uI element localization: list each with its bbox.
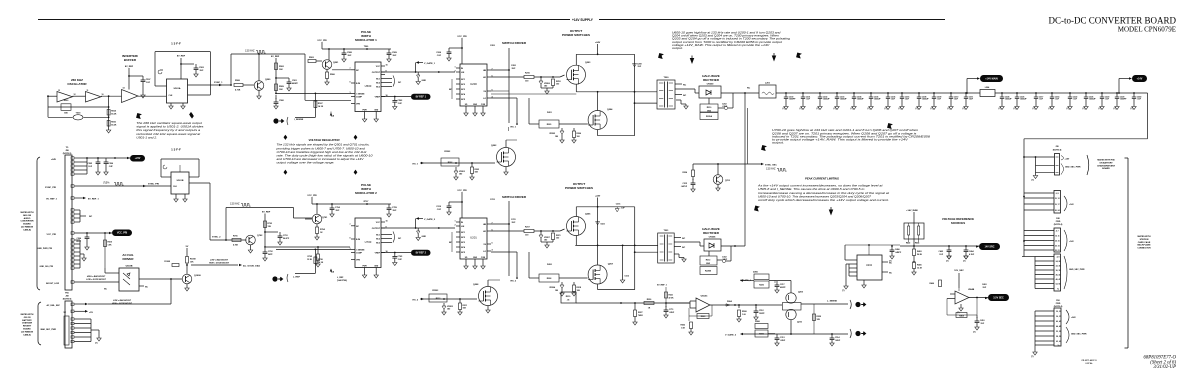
svg-text:(7): (7) [1131, 108, 1134, 110]
svg-text:(NOTE 8): (NOTE 8) [63, 299, 72, 301]
svg-text:(7): (7) [931, 108, 934, 110]
svg-text:16, 17: 16, 17 [1055, 204, 1060, 206]
svg-text:4, 7: 4, 7 [1056, 229, 1059, 232]
svg-text:Q204: Q204 [607, 108, 613, 111]
svg-text:R227: R227 [638, 312, 643, 314]
svg-text:R218: R218 [577, 287, 582, 289]
svg-text:U501B: U501B [177, 180, 184, 182]
svg-text:CABLE): CABLE) [23, 228, 31, 231]
svg-text:10K: 10K [279, 69, 283, 71]
svg-text:(7): (7) [1031, 356, 1034, 358]
svg-text:32, 35: 32, 35 [1056, 265, 1061, 267]
svg-text:PWR: PWR [362, 109, 367, 111]
svg-text:LOW = BAD BOOST: LOW = BAD BOOST [113, 300, 132, 302]
svg-text:C215: C215 [682, 183, 687, 185]
svg-text:(7): (7) [95, 343, 98, 345]
svg-text:(7): (7) [1049, 108, 1052, 110]
svg-text:(7): (7) [851, 108, 854, 110]
svg-text:CR200: CR200 [707, 84, 715, 86]
svg-text:VR202: VR202 [549, 133, 555, 135]
svg-text:BAD_SEC_PWR: BAD_SEC_PWR [41, 328, 57, 331]
svg-text:The 266 kHz oscillator square-: The 266 kHz oscillator square-wave outpu… [136, 121, 202, 125]
svg-text:10K: 10K [279, 89, 283, 91]
svg-text:VREF: VREF [375, 97, 381, 99]
svg-text:C703: C703 [283, 235, 288, 237]
svg-text:C216: C216 [616, 204, 621, 206]
svg-text:CR-0371-4837-O: CR-0371-4837-O [1081, 359, 1097, 362]
svg-text:R703: R703 [268, 223, 273, 225]
svg-text:(7): (7) [946, 261, 949, 263]
svg-text:10, 11: 10, 11 [1055, 235, 1060, 237]
svg-text:ILIM: ILIM [356, 83, 360, 85]
svg-text:7M62: 7M62 [638, 315, 643, 317]
svg-text:18, 19: 18, 19 [1055, 245, 1060, 247]
svg-text:GND: GND [422, 80, 427, 82]
svg-text:CLK: CLK [173, 186, 178, 188]
svg-text:CHARGER: CHARGER [22, 322, 33, 325]
svg-text:1500UF: 1500UF [874, 99, 882, 101]
svg-text:MATES WITH: MATES WITH [1137, 235, 1151, 238]
svg-text:OUTPUT: OUTPUT [372, 72, 381, 74]
svg-text:R1009: R1009 [164, 261, 170, 263]
svg-text:22, 23: 22, 23 [1055, 250, 1060, 252]
svg-text:1500UF: 1500UF [857, 99, 865, 101]
svg-text:13.3K: 13.3K [307, 259, 313, 261]
svg-text:ON BATTERY: ON BATTERY [1099, 161, 1113, 164]
svg-text:GND: GND [374, 265, 379, 267]
svg-text:GND: GND [706, 263, 711, 265]
svg-text:(7): (7) [868, 108, 871, 110]
svg-text:RS_1: RS_1 [511, 127, 517, 129]
svg-text:FWD: FWD [1056, 303, 1061, 305]
svg-text:(1/2 RIBBON: (1/2 RIBBON [21, 331, 34, 333]
svg-text:CR203: CR203 [432, 290, 439, 292]
svg-text:J400 ON: J400 ON [23, 214, 32, 217]
svg-text:+24V: +24V [51, 158, 57, 161]
svg-text:I_SENSE: I_SENSE [294, 119, 304, 121]
svg-text:+24V: +24V [595, 195, 601, 198]
svg-text:(7): (7) [885, 108, 888, 110]
svg-text:(NOTE 4): (NOTE 4) [1054, 223, 1063, 226]
svg-text:LO: LO [483, 98, 486, 100]
svg-text:R402: R402 [906, 242, 910, 245]
svg-text:GND_SEC_PWR: GND_SEC_PWR [1069, 269, 1085, 271]
svg-text:PEAK CURRENT LIMITING: PEAK CURRENT LIMITING [805, 177, 839, 181]
svg-text:VCC: VCC [376, 222, 381, 224]
svg-text:As the +14V output current inc: As the +14V output current increases/dec… [757, 184, 883, 188]
svg-text:R226: R226 [647, 299, 652, 301]
svg-text:J20 ON: J20 ON [23, 317, 31, 319]
svg-text:TO: TO [66, 147, 69, 149]
svg-text:NC: NC [89, 216, 93, 218]
svg-text:4.75K: 4.75K [235, 89, 241, 92]
svg-text:NC: NC [682, 238, 686, 240]
svg-text:CONNECTOR: CONNECTOR [1137, 248, 1151, 250]
svg-text:VCC_PRI: VCC_PRI [457, 190, 467, 192]
svg-text:.01UF: .01UF [76, 241, 82, 243]
svg-text:56.2K: 56.2K [111, 113, 117, 115]
svg-text:C217: C217 [780, 284, 785, 286]
svg-text:+14V: +14V [1069, 240, 1074, 243]
svg-text:to provide output voltage +14V: to provide output voltage +14V_RAW. This… [772, 138, 908, 142]
svg-text:RECTIFIER: RECTIFIER [703, 231, 720, 235]
svg-text:BOARD: BOARD [23, 223, 31, 226]
svg-text:C506: C506 [109, 163, 114, 165]
svg-text:+24V: +24V [135, 157, 141, 160]
svg-text:40, 43: 40, 43 [1056, 273, 1061, 276]
svg-text:36, 37: 36, 37 [1056, 316, 1061, 318]
svg-text:+14V: +14V [1137, 77, 1143, 80]
svg-text:5: 5 [349, 81, 350, 83]
svg-text:12.1K: 12.1K [917, 268, 923, 270]
svg-text:U501A: U501A [174, 87, 181, 90]
svg-text:C505: C505 [87, 163, 92, 165]
svg-text:8V REF 1: 8V REF 1 [416, 96, 427, 99]
svg-text:HIGH = BAD BOOST: HIGH = BAD BOOST [87, 276, 106, 278]
svg-text:180: 180 [459, 174, 462, 176]
svg-text:VCC_PRI: VCC_PRI [457, 36, 467, 38]
svg-text:R404: R404 [915, 242, 919, 245]
svg-text:GND: GND [707, 111, 712, 113]
svg-text:Q1008: Q1008 [194, 275, 201, 277]
svg-text:C512: C512 [759, 310, 764, 312]
svg-text:180: 180 [555, 136, 558, 138]
svg-text:4.75K: 4.75K [233, 244, 239, 247]
svg-text:R508: R508 [742, 311, 747, 313]
svg-text:R220A: R220A [706, 115, 713, 118]
svg-text:180: 180 [544, 86, 547, 88]
svg-text:Q208: Q208 [473, 284, 479, 286]
svg-text:V_GATE_2: V_GATE_2 [424, 218, 436, 221]
svg-text:10V_SEC: 10V_SEC [954, 270, 964, 272]
svg-text:(7): (7) [1032, 180, 1035, 182]
svg-text:COMP: COMP [356, 253, 363, 255]
svg-text:24, 28: 24, 28 [1056, 260, 1061, 263]
svg-text:CABLE): CABLE) [23, 333, 31, 336]
svg-text:8V_REF: 8V_REF [262, 212, 271, 214]
svg-text:(7): (7) [1014, 108, 1017, 110]
svg-text:AC_GOOD_DAG: AC_GOOD_DAG [243, 265, 260, 268]
svg-text:GND: GND [473, 257, 478, 259]
svg-text:(7): (7) [963, 261, 966, 263]
svg-text:REVERT: REVERT [23, 326, 32, 328]
svg-text:20, 24: 20, 24 [1055, 209, 1060, 212]
svg-text:14.1K: 14.1K [318, 105, 324, 108]
svg-text:30, 33: 30, 33 [1056, 311, 1061, 313]
svg-text:6, 8: 6, 8 [1056, 193, 1059, 195]
svg-text:1500UF: 1500UF [1089, 99, 1097, 101]
svg-text:+14V SUPPLY: +14V SUPPLY [572, 18, 594, 22]
svg-text:U202: U202 [866, 264, 873, 267]
svg-text:LOW = GOOD BOOST: LOW = GOOD BOOST [86, 279, 106, 281]
svg-text:Q701: Q701 [322, 217, 328, 219]
svg-text:signal is applied to U501-2. U: signal is applied to U501-2. U501A divid… [136, 125, 204, 129]
svg-text:U700-10 are bistables triggere: U700-10 are bistables triggered high and… [277, 150, 368, 154]
svg-text:(7)5%: (7)5% [103, 182, 110, 185]
svg-text:The 132 kHz signals are shaped: The 132 kHz signals are shaped by the Q5… [277, 143, 370, 147]
svg-text:STATION: STATION [1140, 238, 1149, 241]
svg-text:NC: NC [398, 238, 402, 240]
svg-text:R406: R406 [929, 282, 934, 285]
svg-text:R705: R705 [307, 256, 312, 258]
svg-text:56.2K: 56.2K [917, 254, 923, 256]
svg-text:C402: C402 [938, 250, 943, 253]
svg-text:U201: U201 [470, 236, 477, 240]
svg-text:HIGH = GOOD BOOST: HIGH = GOOD BOOST [112, 303, 133, 305]
svg-text:4, 8: 4, 8 [1057, 255, 1060, 258]
svg-text:and U700-10 are decreased or i: and U700-10 are decreased or increased t… [277, 157, 364, 161]
svg-text:180: 180 [555, 290, 558, 292]
svg-text:36, 39: 36, 39 [1056, 270, 1061, 272]
svg-text:14, 15: 14, 15 [1055, 239, 1060, 242]
svg-text:R229: R229 [817, 316, 822, 318]
svg-text:(7): (7) [1114, 108, 1117, 110]
svg-text:14V SRC: 14V SRC [985, 245, 995, 248]
svg-text:5: 5 [349, 237, 350, 239]
svg-text:Q501: Q501 [333, 62, 339, 64]
svg-text:GND_PWR_PRI: GND_PWR_PRI [37, 248, 52, 250]
svg-text:BOARD: BOARD [1102, 167, 1110, 170]
svg-text:T201: T201 [664, 230, 670, 232]
svg-text:COM: COM [481, 104, 486, 106]
svg-text:(7): (7) [783, 108, 786, 110]
svg-text:DC-to-DC CONVERTER BOARD: DC-to-DC CONVERTER BOARD [1049, 16, 1177, 26]
svg-text:Q207: Q207 [608, 264, 614, 266]
svg-text:R213: R213 [436, 298, 441, 300]
svg-text:U600-10 and U700-10. This decr: U600-10 and U700-10. This decreases/incr… [758, 194, 872, 198]
svg-text:52, 55: 52, 55 [1056, 331, 1061, 333]
svg-text:3/31/02-UP: 3/31/02-UP [1153, 365, 1176, 370]
svg-text:1500UF: 1500UF [1020, 99, 1028, 101]
svg-text:46, 47: 46, 47 [1056, 278, 1061, 281]
svg-text:rate. The duty cycle (high-low: rate. The duty cycle (high-low ratio) of… [277, 153, 374, 157]
svg-text:R220B: R220B [705, 271, 712, 273]
svg-text:NC: NC [747, 88, 751, 90]
svg-text:1500UF: 1500UF [823, 99, 831, 101]
svg-text:R231: R231 [669, 295, 674, 297]
svg-text:BUFFER: BUFFER [124, 58, 137, 62]
svg-text:(7): (7) [800, 108, 803, 110]
svg-text:R503: R503 [701, 316, 706, 318]
svg-text:C410: C410 [980, 319, 985, 322]
svg-text:7: 7 [349, 224, 350, 226]
svg-text:62, 63: 62, 63 [1056, 341, 1061, 343]
svg-text:FWD: FWD [1056, 221, 1061, 223]
svg-text:120PF: 120PF [759, 313, 765, 315]
svg-text:U505-8 and I_SENSE. This cause: U505-8 and I_SENSE. This causes the driv… [758, 187, 865, 191]
svg-text:GND_SEC_PWR: GND_SEC_PWR [1065, 166, 1081, 168]
svg-text:SOURCES: SOURCES [951, 221, 965, 225]
svg-text:HIGH = GOOD BOOST: HIGH = GOOD BOOST [209, 262, 230, 264]
svg-text:NC: NC [682, 247, 686, 249]
svg-text:8V_REF_1: 8V_REF_1 [88, 199, 99, 201]
svg-text:GND: GND [473, 104, 478, 106]
svg-text:output.: output. [672, 46, 684, 50]
svg-text:(7): (7) [1033, 108, 1036, 110]
svg-text:MATES WITH P40: MATES WITH P40 [1097, 159, 1115, 162]
svg-text:LO: LO [483, 251, 486, 253]
svg-text:1500UF: 1500UF [922, 99, 930, 101]
svg-text:1 3 F-F: 1 3 F-F [171, 148, 181, 152]
svg-text:8V_REF_1: 8V_REF_1 [46, 199, 57, 201]
svg-text:R219: R219 [566, 296, 571, 298]
svg-text:15: 15 [386, 220, 388, 222]
svg-text:4.1UF: 4.1UF [969, 253, 975, 256]
svg-text:100: 100 [556, 238, 559, 240]
svg-text:BATTERY: BATTERY [22, 319, 32, 322]
svg-text:2-3P AL: 2-3P AL [1085, 362, 1093, 365]
svg-text:CHARGER/EVENT: CHARGER/EVENT [1097, 164, 1116, 167]
svg-text:voltage +14V_RAW. This output: voltage +14V_RAW. This output is filtere… [672, 43, 770, 47]
svg-text:I_SENSE: I_SENSE [356, 249, 366, 251]
svg-text:R502: R502 [680, 325, 685, 327]
svg-text:R403: R403 [917, 250, 922, 253]
svg-text:14: 14 [123, 87, 125, 90]
svg-text:C313: C313 [780, 337, 785, 339]
svg-text:C512: C512 [624, 276, 629, 278]
svg-text:1500PF: 1500PF [789, 99, 796, 101]
svg-text:CONVERTER: CONVERTER [20, 221, 34, 223]
svg-text:HS_1: HS_1 [413, 164, 419, 166]
svg-text:BOARD: BOARD [23, 328, 31, 331]
svg-text:OUTPUT: OUTPUT [372, 228, 381, 230]
svg-text:R500: R500 [64, 100, 69, 102]
svg-text:R505: R505 [111, 122, 116, 124]
svg-text:7a: 7a [1058, 345, 1060, 347]
svg-text:VCC_PRI: VCC_PRI [307, 195, 317, 197]
svg-text:R405: R405 [917, 264, 922, 267]
svg-text:56.2K: 56.2K [111, 124, 117, 126]
svg-text:D211: D211 [601, 224, 605, 226]
svg-text:8V_REF: 8V_REF [271, 56, 280, 58]
svg-text:MATES WITH: MATES WITH [21, 313, 34, 316]
svg-text:180: 180 [447, 309, 450, 311]
svg-text:(7): (7) [834, 108, 837, 110]
svg-text:1: 1 [454, 66, 455, 68]
svg-text:.05: .05 [567, 300, 570, 302]
svg-text:12: 12 [74, 94, 76, 96]
svg-text:(7): (7) [999, 108, 1002, 110]
svg-text:620PF: 620PF [780, 287, 786, 289]
svg-text:NC: NC [398, 82, 402, 84]
svg-text:40, 41: 40, 41 [1056, 320, 1061, 323]
svg-text:L_SENSE: L_SENSE [827, 301, 838, 303]
svg-text:AC_FAIL_SEC: AC_FAIL_SEC [46, 304, 60, 307]
svg-text:VFB: VFB [356, 260, 361, 262]
svg-text:(7): (7) [899, 108, 902, 110]
svg-text:8V_REF: 8V_REF [125, 66, 134, 68]
svg-text:52, 55: 52, 55 [1056, 283, 1061, 285]
svg-text:(7): (7) [916, 108, 919, 110]
svg-text:U501-1 and 2.: U501-1 and 2. [136, 135, 157, 139]
svg-text:VCC_PRI: VCC_PRI [317, 40, 327, 42]
svg-text:1000PF: 1000PF [1120, 99, 1127, 101]
svg-text:LIN: LIN [461, 72, 465, 74]
svg-text:output.: output. [772, 141, 784, 145]
svg-text:100: 100 [577, 136, 580, 138]
svg-text:U504C: U504C [701, 295, 708, 298]
svg-text:PWR: PWR [362, 265, 367, 267]
svg-text:GND_SEC_PWR: GND_SEC_PWR [1071, 334, 1087, 336]
svg-text:C403: C403 [982, 283, 987, 286]
svg-text:providing trigger pulses to U6: providing trigger pulses to U600-7 and U… [275, 146, 365, 150]
svg-text:R1008: R1008 [190, 259, 196, 261]
svg-text:(7): (7) [1099, 108, 1102, 110]
svg-text:132 KHZ: 132 KHZ [245, 50, 255, 53]
svg-text:U700: U700 [365, 240, 372, 244]
svg-text:47.5K: 47.5K [669, 297, 675, 300]
svg-text:1.5K: 1.5K [681, 328, 686, 330]
svg-text:SYNC_SEC: SYNC_SEC [765, 165, 777, 167]
svg-text:U200: U200 [470, 82, 477, 86]
svg-text:OSCILLATOR: OSCILLATOR [67, 82, 87, 86]
svg-text:C208: C208 [637, 64, 642, 66]
svg-text:Q205: Q205 [585, 214, 591, 216]
svg-text:rectocized 132 kHz square-wave: rectocized 132 kHz square-wave signal at [136, 132, 200, 136]
svg-text:POWER SWITCHES: POWER SWITCHES [565, 186, 593, 190]
svg-text:on/off duty cycle which decrea: on/off duty cycle which decreases/increa… [758, 198, 889, 202]
svg-text:R706: R706 [233, 236, 238, 238]
svg-text:U503B: U503B [126, 266, 133, 268]
svg-text:LIN: LIN [461, 226, 465, 228]
svg-text:10, 12: 10, 12 [1055, 198, 1060, 200]
svg-text:Q702: Q702 [257, 235, 263, 237]
svg-text:44, 45: 44, 45 [1056, 325, 1061, 328]
svg-text:+14V: +14V [1065, 158, 1070, 161]
svg-text:11: 11 [87, 90, 89, 92]
svg-text:SYNC_PRI: SYNC_PRI [148, 184, 159, 186]
svg-text:R210: R210 [707, 107, 712, 109]
svg-text:NC: NC [683, 95, 687, 97]
svg-text:+24V: +24V [595, 41, 601, 44]
svg-text:56.0PF: 56.0PF [283, 238, 290, 240]
svg-text:BOOST_LOW: BOOST_LOW [46, 283, 59, 285]
svg-text:VCC_PRI: VCC_PRI [117, 232, 128, 235]
svg-text:.045PF: .045PF [895, 251, 902, 254]
svg-text:BACKPLANE: BACKPLANE [1137, 244, 1151, 247]
svg-text:MODULATOR 1: MODULATOR 1 [355, 38, 377, 42]
svg-text:ILIM: ILIM [356, 239, 360, 241]
svg-text:R212: R212 [706, 260, 711, 262]
svg-text:8V_REF: 8V_REF [177, 56, 186, 58]
svg-text:VR204: VR204 [549, 286, 556, 289]
svg-text:L_REF: L_REF [337, 277, 344, 279]
svg-text:RECTIFIER: RECTIFIER [703, 78, 720, 82]
svg-text:R208: R208 [547, 278, 552, 280]
svg-text:1.06: 1.06 [742, 314, 746, 316]
svg-text:+14V: +14V [1069, 203, 1074, 206]
svg-text:(NOTE 4): (NOTE 4) [1054, 305, 1063, 308]
svg-text:V_GATE_2: V_GATE_2 [725, 334, 737, 337]
svg-text:1.8K: 1.8K [108, 245, 113, 247]
svg-text:COMP: COMP [356, 97, 363, 99]
svg-text:R510: R510 [108, 242, 113, 244]
svg-text:L_REF: L_REF [293, 277, 301, 279]
svg-text:132 KHZ: 132 KHZ [230, 203, 240, 206]
svg-text:100: 100 [556, 84, 559, 86]
svg-text:U500: U500 [365, 84, 372, 88]
svg-text:1: 1 [454, 220, 455, 222]
svg-text:DRIVER: DRIVER [123, 257, 135, 261]
svg-text:(7): (7) [948, 108, 951, 110]
svg-text:(7): (7) [889, 261, 892, 263]
svg-text:R206: R206 [577, 133, 582, 135]
svg-text:POWER SWITCHES: POWER SWITCHES [562, 33, 590, 37]
svg-text:VFB: VFB [356, 104, 361, 106]
svg-text:GND: GND [422, 236, 427, 238]
svg-text:CR206: CR206 [709, 237, 717, 239]
svg-text:180: 180 [544, 240, 547, 242]
